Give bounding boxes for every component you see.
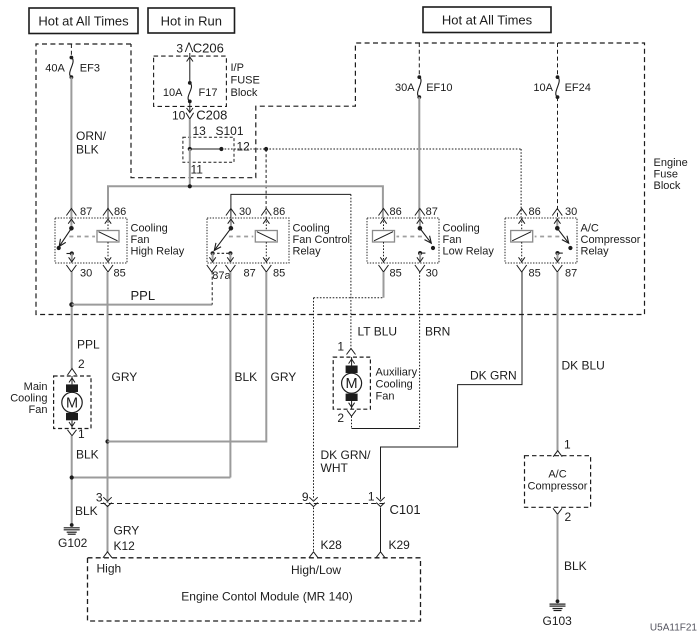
svg-text:85: 85 (529, 268, 541, 280)
svg-text:High: High (97, 562, 122, 576)
dashed wire: EF24 to A/C compressor relay pin 30 (557, 97, 559, 218)
dotted wire from S101 pin 12 to A/C compressor relay pin 86 (221, 149, 521, 218)
svg-text:M: M (66, 396, 78, 412)
svg-text:87a: 87a (212, 270, 231, 282)
header box: Hot at All Times (left) (29, 8, 138, 34)
junction on dotted wire (264, 147, 268, 151)
svg-text:3: 3 (176, 42, 183, 56)
wire BLK bus: to main fan ground leg (72, 477, 231, 479)
svg-text:C101: C101 (390, 502, 421, 517)
wire label GRY (relay2-85 drop) (271, 370, 297, 384)
dotted branch down to cooling fan control relay pin 86 (265, 149, 267, 218)
svg-text:PPL: PPL (131, 288, 156, 303)
splice S101 internal link, pins 13-12 (188, 147, 224, 151)
svg-text:Fan: Fan (443, 234, 462, 246)
connector C101 dashed line (101, 502, 421, 517)
svg-text:Engine Contol Module (MR 140): Engine Contol Module (MR 140) (181, 590, 352, 604)
wire label DK GRN (470, 369, 517, 383)
wire label BLK (compressor ground) (564, 559, 587, 573)
wire: dashed feed above fuse EF3 (70, 44, 72, 58)
svg-text:Cooling: Cooling (293, 223, 330, 235)
svg-text:1: 1 (337, 340, 344, 354)
header box: Hot in Run (148, 8, 235, 33)
svg-text:F17: F17 (199, 87, 218, 99)
svg-text:A/C: A/C (581, 223, 599, 235)
wire: EF10 to cooling fan low relay pin 87 (418, 97, 420, 218)
svg-text:K29: K29 (389, 538, 411, 552)
wire: F17 to connector C208 with down arrow (187, 101, 193, 112)
auxiliary fan pin 1 connector (337, 340, 355, 355)
header box: Hot at All Times (right) (423, 7, 551, 33)
wire DK BLU: A/C relay pin 87 to compressor (557, 272, 559, 451)
wire PPL: relay1 pin30 down to main cooling fan (71, 272, 73, 369)
ECM pin K28 (309, 538, 342, 558)
C101 pin 3 (GRY) (96, 491, 112, 507)
svg-text:S101: S101 (216, 124, 244, 138)
engine fuse block label (654, 157, 688, 192)
svg-text:Hot in Run: Hot in Run (161, 14, 222, 29)
wire bus: S101-11 feed to relay pins 86 (high/low relays) (108, 186, 383, 218)
svg-text:Low Relay: Low Relay (443, 246, 495, 258)
svg-text:13: 13 (193, 124, 207, 138)
engine fuse block dashed boundary (36, 43, 645, 315)
svg-text:10A: 10A (533, 82, 553, 94)
wire: relay3 pin 85 stub (383, 272, 385, 298)
wire label BRN (425, 325, 450, 339)
svg-text:EF10: EF10 (426, 82, 452, 94)
svg-text:30: 30 (80, 268, 92, 280)
junction BLK (70, 475, 74, 479)
svg-text:G103: G103 (543, 614, 573, 628)
wire label GRY (below C101) (114, 524, 140, 538)
svg-text:LT BLU: LT BLU (358, 325, 398, 339)
wire: ORN/BLK from fuse EF3 to relay pin 87 (70, 77, 72, 218)
fuse EF10 30A (395, 75, 452, 99)
auxiliary fan pin 2 connector (337, 410, 356, 425)
svg-text:C206: C206 (193, 41, 224, 56)
svg-text:Relay: Relay (293, 246, 322, 258)
wire label BLK (above junction) (76, 448, 99, 462)
I/P fuse block label (231, 62, 260, 99)
svg-text:Fan Control: Fan Control (293, 234, 350, 246)
C101 pin 1 (DK GRN) (368, 490, 385, 507)
wire label BLK (below junction) (75, 504, 98, 518)
svg-text:Fan: Fan (29, 404, 48, 416)
svg-text:Block: Block (654, 180, 681, 192)
svg-text:11: 11 (191, 163, 204, 177)
svg-text:Hot at All Times: Hot at All Times (38, 14, 129, 29)
wire BLK: compressor to ground G103 (557, 514, 559, 600)
svg-text:BLK: BLK (564, 559, 587, 573)
svg-text:High Relay: High Relay (131, 246, 185, 258)
svg-text:A/C: A/C (548, 469, 566, 481)
wire DK GRN: A/C relay pin 85 to ECM K29 (381, 272, 523, 552)
wire: C208 down to splice S101 (189, 119, 191, 149)
svg-text:87: 87 (565, 268, 577, 280)
relay: Cooling Fan High Relay (55, 206, 185, 280)
svg-text:1: 1 (368, 490, 375, 504)
svg-text:3: 3 (96, 491, 103, 505)
main cooling fan label (10, 381, 47, 416)
dotted wire BRN: cooling fan low relay pin 30 down (419, 272, 421, 429)
junction of S101-11 wire and bus (188, 184, 192, 188)
svg-text:87: 87 (426, 206, 438, 218)
svg-text:Engine: Engine (654, 157, 688, 169)
svg-text:30: 30 (565, 206, 577, 218)
svg-text:BRN: BRN (425, 325, 450, 339)
svg-text:Auxiliary: Auxiliary (376, 367, 418, 379)
svg-text:BLK: BLK (235, 370, 258, 384)
ECM pin K12 (103, 539, 135, 558)
svg-text:WHT: WHT (321, 461, 349, 475)
svg-text:BLK: BLK (76, 143, 99, 157)
svg-text:U5A11F21: U5A11F21 (650, 623, 698, 634)
svg-text:86: 86 (114, 206, 126, 218)
svg-text:EF3: EF3 (80, 62, 100, 74)
wire BLK: control relay pin 87 down (229, 272, 231, 478)
I/P fuse block dashed box (154, 56, 227, 106)
wire label DK BLU (562, 359, 605, 373)
svg-text:86: 86 (529, 206, 541, 218)
wire: control relay pin 30 up-over to auxiliary fan drop (231, 194, 351, 348)
svg-text:G102: G102 (58, 536, 88, 550)
svg-text:Compressor: Compressor (528, 481, 588, 493)
svg-text:Fuse: Fuse (654, 169, 678, 181)
connector C206 pin 3 fork (176, 41, 224, 56)
svg-text:M: M (346, 376, 358, 392)
fuse F17 10A (163, 81, 218, 103)
wire GRY: relay1 pin85 down to ECM K12 (107, 272, 109, 552)
svg-text:ORN/: ORN/ (76, 129, 107, 143)
svg-text:1: 1 (78, 427, 85, 441)
svg-text:Fan: Fan (131, 234, 150, 246)
ground G102 (58, 523, 88, 550)
svg-text:40A: 40A (45, 62, 65, 74)
svg-text:10: 10 (172, 109, 186, 123)
ECM pin K29 (376, 538, 410, 558)
C101 pin 9 (DK GRN/WHT) (302, 490, 318, 507)
svg-text:87: 87 (244, 268, 256, 280)
svg-text:85: 85 (114, 268, 126, 280)
wire label PPL (horizontal run) (131, 288, 156, 303)
svg-text:Cooling: Cooling (443, 223, 480, 235)
relay: A/C Compressor Relay (505, 206, 641, 280)
svg-text:C208: C208 (196, 108, 227, 123)
auxiliary cooling fan motor M (333, 357, 370, 409)
svg-text:85: 85 (390, 268, 402, 280)
wire PPL: junction right to control relay 87a drop (72, 304, 213, 306)
A/C compressor dashed box (525, 456, 591, 508)
svg-text:2: 2 (565, 510, 572, 524)
svg-text:DK GRN/: DK GRN/ (321, 448, 372, 462)
main cooling fan pin 2 connector (68, 357, 86, 375)
wire label PPL (vertical run) (77, 338, 100, 352)
wire GRY bus: junction to control relay pin 85 (108, 272, 267, 442)
wire label DK GRN/WHT (321, 448, 372, 475)
fuse EF3 40A (45, 56, 100, 80)
dashed wire: control relay pin 87a down to PPL bus (211, 272, 213, 305)
main cooling fan pin 1 connector (68, 427, 86, 441)
svg-text:EF24: EF24 (565, 82, 591, 94)
svg-text:Cooling: Cooling (10, 393, 47, 405)
ECM title (181, 590, 352, 604)
relay: Cooling Fan Control Relay (207, 206, 350, 282)
junction PPL (69, 302, 74, 307)
svg-text:Hot at All Times: Hot at All Times (442, 13, 533, 28)
svg-text:30A: 30A (395, 82, 415, 94)
svg-text:GRY: GRY (114, 524, 140, 538)
svg-text:86: 86 (273, 206, 285, 218)
wire: dashed feed above fuse EF24 (557, 43, 559, 77)
dotted wire DK GRN/WHT to ECM K28 (314, 298, 384, 552)
svg-text:GRY: GRY (271, 370, 297, 384)
svg-text:GRY: GRY (112, 370, 138, 384)
ECM dashed box (88, 558, 421, 621)
svg-text:PPL: PPL (77, 338, 100, 352)
svg-text:K28: K28 (321, 538, 343, 552)
svg-text:K12: K12 (114, 539, 136, 553)
wire label ORN/BLK (76, 129, 107, 157)
wire: S101 pin 11 down to relay bus (189, 149, 191, 186)
svg-text:1: 1 (564, 438, 571, 452)
svg-text:2: 2 (78, 357, 85, 371)
svg-text:2: 2 (337, 411, 344, 425)
main cooling fan motor M (54, 376, 91, 429)
svg-text:Main: Main (24, 381, 48, 393)
ground G103 (543, 599, 573, 628)
svg-text:87: 87 (80, 206, 92, 218)
A/C compressor pin 1 connector (553, 438, 571, 457)
svg-text:30: 30 (239, 206, 251, 218)
wire label GRY (upper) (112, 370, 138, 384)
svg-text:Cooling: Cooling (131, 223, 168, 235)
svg-text:DK GRN: DK GRN (470, 369, 517, 383)
junction GRY bus (105, 439, 109, 443)
auxiliary cooling fan label (376, 367, 418, 403)
fuse EF24 10A (533, 75, 590, 99)
svg-text:Fan: Fan (376, 391, 395, 403)
svg-text:FUSE: FUSE (231, 75, 260, 87)
svg-text:DK BLU: DK BLU (562, 359, 605, 373)
A/C compressor pin 2 connector (553, 508, 572, 524)
svg-text:30: 30 (426, 268, 438, 280)
S101 labels: pins 13, 12, 11 and name (191, 124, 251, 176)
dotted wire: aux fan pin 2 to BRN riser (352, 416, 420, 428)
svg-text:BLK: BLK (75, 504, 98, 518)
svg-text:Relay: Relay (581, 246, 610, 258)
svg-text:Block: Block (231, 87, 258, 99)
splice S101 dashed box (183, 137, 234, 162)
svg-text:Compressor: Compressor (581, 234, 641, 246)
svg-text:BLK: BLK (76, 448, 99, 462)
svg-text:12: 12 (237, 140, 251, 154)
wire label LT BLU (358, 325, 398, 339)
diagram id U5A11F21 (650, 623, 698, 634)
svg-text:85: 85 (273, 268, 285, 280)
svg-text:10A: 10A (163, 87, 183, 99)
svg-text:Cooling: Cooling (376, 379, 413, 391)
wire: C206 to fuse F17 with up arrow (187, 53, 193, 83)
svg-text:86: 86 (390, 206, 402, 218)
wire BLK: main fan to ground G102 (71, 436, 73, 524)
wire: dashed feed above fuse EF10 (418, 43, 420, 77)
connector C208 pin 10 fork (172, 108, 227, 123)
svg-text:9: 9 (302, 490, 309, 504)
wire label BLK (relay2-87 drop) (235, 370, 258, 384)
svg-text:I/P: I/P (231, 62, 244, 74)
svg-text:High/Low: High/Low (291, 563, 341, 577)
ECM pin function labels (97, 562, 342, 578)
relay: Cooling Fan Low Relay (367, 206, 494, 280)
